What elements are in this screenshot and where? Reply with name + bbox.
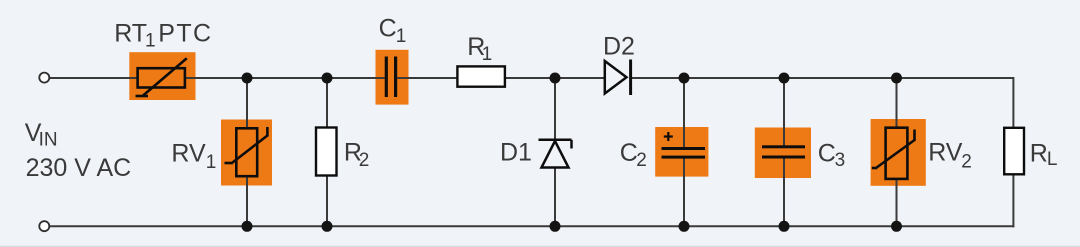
highlight box C1 <box>376 50 409 105</box>
resistor R2 <box>316 128 337 176</box>
junction dot bottom R2 <box>322 221 333 232</box>
junction dot top RV1 <box>242 73 253 84</box>
wire top: C1 to R1 <box>397 77 457 79</box>
wire branch RV2 bottom <box>896 178 898 226</box>
junction dot top R2 <box>322 73 333 84</box>
resistor RL <box>1004 128 1024 175</box>
junction dot bottom D1 <box>550 221 561 232</box>
wire top: D2 to right corner <box>632 77 1014 79</box>
junction dot bottom RV1 <box>242 221 253 232</box>
wire branch C2 top <box>683 78 685 149</box>
wire branch R2 bottom <box>326 176 328 227</box>
highlight box RV2 <box>871 119 926 186</box>
wire right top corner down to RL <box>1012 77 1014 128</box>
wire branch C3 bottom <box>783 157 785 227</box>
highlight box C2 <box>655 127 708 177</box>
highlight box C3 <box>755 128 811 179</box>
input terminal bottom <box>39 221 49 231</box>
wire top: input terminal to RT1 <box>50 77 138 79</box>
junction dot bottom RV2 <box>891 221 902 232</box>
wire branch C3 top <box>783 78 785 148</box>
wire branch RV2 top <box>896 78 898 129</box>
resistor R1 <box>457 66 505 86</box>
svg-text:D2: D2 <box>603 32 635 60</box>
wire branch R2 top <box>326 78 328 128</box>
input terminal top <box>39 73 49 83</box>
capacitor C1 <box>385 57 398 98</box>
varistor RV1 <box>225 127 268 176</box>
varistor RV2 <box>872 128 915 179</box>
wire branch C2 bottom <box>683 157 685 227</box>
wire top: RT1 to C1 <box>185 77 385 79</box>
junction dot bottom C3 <box>779 221 790 232</box>
wire bottom rail <box>50 225 1014 227</box>
junction dot top C2 <box>679 73 690 84</box>
junction dot top D1 <box>550 73 561 84</box>
svg-text:D1: D1 <box>500 139 532 167</box>
junction dot bottom C2 <box>679 221 690 232</box>
svg-text:230 V AC: 230 V AC <box>26 154 132 182</box>
capacitor C2 (polarized) <box>662 147 706 159</box>
wire top: R1 to D2 <box>505 77 605 79</box>
bottom page edge line <box>0 246 1080 247</box>
junction dot top RV2 <box>891 73 902 84</box>
wire branch RV1 bottom <box>246 176 248 226</box>
highlight box RV1 <box>221 120 272 186</box>
wire branch RV1 top <box>246 78 248 130</box>
junction dot top C3 <box>779 73 790 84</box>
svg-text:RT1PTC: RT1PTC <box>114 19 212 51</box>
plus sign of C2 <box>664 132 673 141</box>
wire RL bottom to bottom rail <box>1012 175 1014 228</box>
wire branch D1 top <box>554 78 556 140</box>
wire branch D1 bottom <box>554 167 556 227</box>
thermistor RT1 <box>136 58 187 96</box>
diode D2 <box>605 60 631 96</box>
highlight box RT1 <box>129 52 195 100</box>
capacitor C3 <box>762 145 805 158</box>
zener diode D1 <box>539 140 572 168</box>
